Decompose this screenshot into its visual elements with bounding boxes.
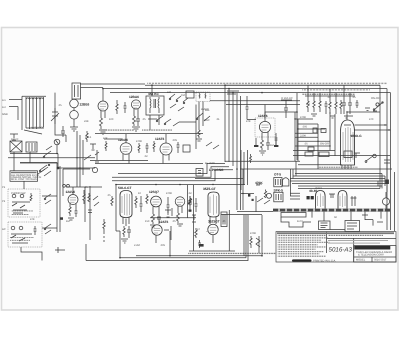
- VB interior: [163, 147, 170, 152]
- right column faint rows: [328, 240, 388, 244]
- dashed box 2: [8, 222, 42, 247]
- resistor R21 under V6: [123, 226, 125, 237]
- bottom note text row: [188, 253, 283, 254]
- right mesh verticals: [295, 112, 335, 169]
- box2 contacts: [11, 226, 32, 243]
- nested output wires: [290, 161, 388, 196]
- coil marks inside osc box: [75, 85, 79, 97]
- V4 internals: [262, 125, 269, 130]
- resistor R25 left: [105, 141, 107, 151]
- capacitor C2 area: [61, 126, 65, 137]
- svg-text:50B5: 50B5: [256, 183, 263, 186]
- label row under: [318, 167, 358, 168]
- resistor R11: [198, 130, 200, 138]
- resistor R24 col: [103, 219, 105, 242]
- VA interior: [123, 147, 130, 152]
- svg-text:22K: 22K: [84, 120, 89, 123]
- text row right: [302, 89, 370, 90]
- resistor R5 mid: [116, 100, 118, 114]
- wire x85 drop: [84, 187, 86, 222]
- caps right of V8: [188, 196, 198, 212]
- wire vertical x170: [169, 231, 171, 256]
- wire row top joins: [305, 95, 355, 97]
- jack marks: [198, 171, 201, 174]
- tube V7 circle: [151, 196, 162, 207]
- svg-text:12AV6: 12AV6: [258, 114, 268, 118]
- cord marks: [256, 236, 260, 253]
- phono switch dashed box 1: [8, 189, 40, 217]
- svg-text:12BE6: 12BE6: [80, 103, 90, 107]
- wires join left to center: [42, 169, 90, 228]
- svg-text:12AV6: 12AV6: [66, 190, 76, 194]
- wire bottom-long y255.7: [136, 255, 262, 257]
- vertical line right mid: [296, 93, 298, 160]
- long wire y184.5: [116, 184, 245, 186]
- svg-text:12SQ7: 12SQ7: [149, 190, 159, 194]
- svg-text:A 1: A 1: [2, 99, 6, 102]
- svg-text:150: 150: [145, 220, 150, 223]
- svg-text:9BtO-G: 9BtO-G: [351, 134, 363, 138]
- capacitor C10: [177, 142, 180, 153]
- long label row y130: [100, 129, 134, 130]
- capacitor C12: [246, 96, 257, 120]
- wire vertical x229.3: [189, 210, 235, 251]
- wire osc box lower: [81, 87, 104, 89]
- ground V3: [132, 127, 140, 131]
- capacitor C20 under V6: [127, 226, 131, 238]
- right outer margin vertical: [394, 172, 396, 231]
- volume control pot: [95, 150, 99, 162]
- speaker marks: [276, 194, 281, 200]
- svg-text:.05: .05: [107, 194, 111, 197]
- OT coils: [276, 179, 281, 185]
- svg-text:470K: 470K: [136, 140, 142, 143]
- dark junction blob: [189, 210, 192, 212]
- wire vertical x256: [255, 196, 257, 212]
- contacts under T2: [197, 113, 210, 121]
- svg-text:5016-A3: 5016-A3: [329, 247, 353, 254]
- VA leads: [123, 153, 129, 163]
- tube V8 circle: [175, 197, 185, 207]
- tube V11 circle: [208, 224, 218, 234]
- loop antenna L1: [22, 96, 46, 134]
- wire bundle top corners: [225, 84, 380, 86]
- small tube V15 right: [382, 198, 389, 205]
- parts between tubes: [329, 194, 335, 198]
- svg-text:& TELEVISION CORP.: & TELEVISION CORP.: [358, 254, 385, 257]
- capacitor C4: [266, 140, 270, 150]
- B+ bus vertical bundle: [225, 85, 241, 210]
- sub-box bottom row divider: [354, 257, 396, 262]
- svg-text:P2: P2: [2, 200, 6, 203]
- marks in box C: [347, 223, 357, 229]
- dark header bar: [354, 246, 390, 250]
- tube dome V12: [283, 178, 289, 186]
- V5 base pins: [342, 165, 351, 169]
- svg-text:.05: .05: [172, 220, 176, 223]
- terminal strip dark bar: [273, 209, 390, 212]
- V3 leads down: [134, 109, 138, 116]
- phono jack rect: [196, 169, 203, 177]
- trimmer circle: [54, 139, 60, 145]
- VA stub top: [104, 134, 126, 143]
- svg-text:220K: 220K: [300, 135, 306, 138]
- tube V10 elongated: [208, 192, 219, 217]
- right column verticals x77-83: [77, 131, 83, 187]
- wire left margin: [9, 100, 22, 121]
- parts mid cluster: [165, 208, 172, 217]
- V10 pins: [210, 217, 216, 224]
- vertical pair with jacks: [57, 163, 69, 233]
- wire row y168: [58, 167, 95, 169]
- wire y193.5 stub: [241, 193, 254, 195]
- tube V6 output elongated envelope: [120, 191, 132, 218]
- box under bar: [281, 213, 306, 218]
- capacitor C26 under VC: [75, 208, 78, 217]
- ballast inner: [223, 214, 225, 225]
- svg-text:AC: AC: [2, 228, 6, 231]
- switch contacts left band: [41, 146, 59, 172]
- tube V1 lower section circle: [70, 111, 79, 120]
- V6 pins: [123, 218, 129, 227]
- wires to boxes: [312, 212, 381, 221]
- table verticals: [327, 232, 354, 262]
- black blob logo: [292, 259, 312, 261]
- wire lower-left vertical x86: [85, 244, 87, 261]
- long wire y169: [240, 168, 392, 170]
- V7 internals: [153, 200, 160, 205]
- tube VA 2nd IF circle: [120, 143, 132, 155]
- left column text lines: [278, 237, 330, 257]
- svg-text:35Z5GT: 35Z5GT: [208, 220, 220, 224]
- output box B: [319, 221, 331, 230]
- svg-text:.02: .02: [327, 96, 331, 99]
- wire antenna to grid: [55, 93, 66, 142]
- wire nested corners bottom right: [193, 215, 248, 261]
- V7 leads: [153, 206, 159, 214]
- wire bottom-long y257.7: [120, 257, 246, 259]
- svg-text:OSC: OSC: [204, 119, 210, 122]
- ballast box R40: [221, 212, 227, 227]
- V4 dashed can: [255, 118, 275, 137]
- svg-text:.05: .05: [352, 96, 356, 99]
- svg-text:.005: .005: [160, 244, 166, 247]
- resistor R8: [153, 141, 155, 152]
- lower-left extra verticals: [24, 181, 92, 240]
- VC interior: [70, 198, 76, 202]
- pilot lamp blobs: [248, 194, 250, 197]
- rectifier tube V13: [316, 191, 326, 209]
- wire V2 top: [102, 89, 104, 101]
- nested corner wires to bundle: [112, 164, 233, 181]
- wires to output tube: [355, 125, 391, 130]
- svg-text:117V: 117V: [297, 220, 303, 223]
- VB leads: [163, 134, 169, 164]
- ground T2: [196, 139, 202, 141]
- svg-text:AM: AM: [167, 91, 171, 94]
- maker name sub-box: [354, 246, 396, 262]
- wire vertical x243: [242, 169, 244, 210]
- svg-text:MODEL: MODEL: [356, 258, 366, 261]
- resistor R30: [250, 236, 252, 248]
- IF transformer T1 dashed can: [146, 96, 164, 115]
- dark terminal blob: [60, 217, 63, 220]
- resistor R3: [261, 140, 264, 150]
- ground under V6: [121, 239, 128, 243]
- svg-text:47K: 47K: [246, 120, 251, 123]
- capacitor C9: [146, 143, 149, 153]
- IF transformer T3 box with X: [10, 141, 22, 152]
- wire y178.5 stub: [195, 178, 243, 180]
- V4 leads: [262, 132, 268, 140]
- svg-text:P1: P1: [2, 186, 6, 189]
- long wire y161: [225, 160, 300, 162]
- capacitor C41: [198, 240, 201, 248]
- svg-text:470K: 470K: [166, 192, 172, 195]
- note box: [10, 171, 38, 182]
- T2 coils: [199, 94, 206, 99]
- transformer T4 box: [26, 142, 37, 152]
- switch S5 diagonals: [206, 142, 219, 149]
- ground marks row: [150, 224, 183, 227]
- tube VC 1st audio circle: [68, 195, 78, 205]
- wire vertical x120: [119, 231, 121, 258]
- V2 lower leads: [101, 111, 105, 118]
- box2 capacitor: [34, 226, 37, 235]
- V3 internals: [133, 103, 139, 108]
- wire bottom-long y260.5: [86, 260, 193, 262]
- tube V9 circle lower: [152, 225, 162, 235]
- svg-text:1M: 1M: [306, 103, 310, 106]
- wire vertical x193.5: [193, 185, 195, 251]
- V9 leads resistors: [156, 226, 171, 243]
- wire top bus A: [145, 84, 380, 86]
- switch contacts under: [256, 185, 270, 204]
- small box comp: [183, 145, 190, 152]
- small parts near x55 y250: [55, 247, 65, 253]
- wire bank drops: [308, 85, 350, 100]
- VC leads: [70, 187, 76, 208]
- svg-text:.02: .02: [144, 155, 148, 158]
- wire y164.5: [298, 164, 342, 166]
- svg-text:100: 100: [109, 118, 114, 121]
- output tube V5 envelope: [341, 120, 355, 165]
- output transformer box: [274, 178, 282, 187]
- V6 internals: [122, 194, 130, 216]
- V13 internals: [318, 194, 324, 208]
- svg-text:SPK-5: SPK-5: [274, 189, 284, 193]
- wire drop x116: [116, 185, 120, 232]
- wire y160.5: [90, 160, 148, 162]
- T2 lower leads: [196, 102, 219, 150]
- box1 extra rows: [11, 211, 33, 212]
- wire y163.5: [95, 163, 203, 165]
- components between tubes: [140, 196, 170, 213]
- ground VC: [68, 218, 74, 220]
- wire plate right: [347, 112, 380, 120]
- svg-text:5OL6-GT: 5OL6-GT: [118, 186, 132, 190]
- grounds under resistor bank: [311, 114, 335, 118]
- svg-text:FM: FM: [181, 94, 185, 97]
- svg-text:35Z5-GT: 35Z5-GT: [203, 187, 216, 191]
- resistor R4 right: [275, 133, 278, 146]
- svg-text:.05: .05: [58, 104, 62, 107]
- resistor R29 left of V7: [146, 194, 148, 204]
- svg-text:.05: .05: [304, 143, 308, 146]
- svg-text:PM-5: PM-5: [85, 136, 92, 139]
- wire row y157.8 long AVC: [8, 157, 95, 159]
- wire y217.8: [150, 217, 196, 219]
- svg-text:12AT6: 12AT6: [155, 137, 165, 141]
- wire top bus B: [103, 88, 387, 90]
- svg-text:1M: 1M: [270, 144, 274, 147]
- svg-text:A 2: A 2: [2, 106, 6, 109]
- wire y214.5: [221, 214, 262, 216]
- wire y155.5 right: [293, 155, 390, 157]
- contacts right of VC: [93, 196, 99, 206]
- V11 lead: [212, 235, 214, 243]
- wire step y104.5: [226, 104, 300, 106]
- svg-text:ON-OFF: ON-OFF: [320, 143, 330, 146]
- trimmer stem: [56, 140, 59, 154]
- V9 internals: [154, 228, 160, 233]
- svg-text:5016 5017: 5016 5017: [374, 258, 387, 261]
- connecting verticals: [14, 152, 58, 171]
- dense first text row: [277, 232, 394, 234]
- svg-text:GND: GND: [2, 113, 8, 116]
- svg-text:.05: .05: [84, 186, 88, 189]
- parts small left: [192, 215, 196, 222]
- table outer border: [276, 232, 396, 262]
- wire vertical x187.5: [187, 185, 189, 218]
- svg-text:IF 455 KC: IF 455 KC: [281, 97, 293, 100]
- resistor R20: [83, 190, 85, 204]
- column parts: [84, 144, 96, 160]
- tube V14: [338, 191, 347, 209]
- wire y211.5: [237, 211, 273, 213]
- wire right drop: [261, 215, 263, 257]
- small parts right of boxes: [362, 215, 383, 226]
- svg-text:1ST IF: 1ST IF: [11, 138, 19, 141]
- V8 internals: [177, 200, 183, 205]
- V11 internals: [210, 228, 216, 233]
- table horizontal divider right: [327, 237, 397, 239]
- resistor R1 below V2: [100, 118, 103, 129]
- svg-text:47K: 47K: [30, 218, 35, 221]
- wire osc box to bus: [81, 83, 146, 85]
- ground stems with blobs: [255, 138, 257, 145]
- resistor R26 under VC: [69, 207, 71, 216]
- svg-text:OT-5: OT-5: [274, 172, 281, 176]
- svg-text:.02: .02: [188, 192, 192, 195]
- tube V1 oscillator section circle: [70, 99, 79, 108]
- right margin verticals: [380, 85, 391, 230]
- nested wires into boxes: [290, 193, 300, 199]
- V15 leads: [385, 192, 387, 210]
- filter cap dark blobs: [307, 196, 310, 199]
- svg-text:12BA6: 12BA6: [118, 138, 128, 142]
- svg-text:47K: 47K: [103, 137, 108, 140]
- resistor R31: [264, 190, 266, 198]
- IF transformer T2 dashed can: [196, 92, 210, 102]
- V5 internal elements: [343, 125, 353, 162]
- svg-text:12AT6: 12AT6: [159, 220, 169, 224]
- wire label text row above top bus: [147, 83, 387, 85]
- V10 internals: [210, 195, 217, 216]
- switch S3 right: [356, 100, 384, 111]
- resistor R27: [88, 193, 90, 201]
- svg-text:12BA6: 12BA6: [129, 95, 139, 99]
- svg-text:PRINTED IN U.S.A.: PRINTED IN U.S.A.: [313, 260, 336, 263]
- box2 text rows: [10, 237, 34, 238]
- resistor R21b right of V6: [135, 196, 137, 208]
- sub bundle verticals x241-250: [241, 150, 252, 190]
- ground V4: [259, 151, 266, 155]
- wire box2 to down: [21, 247, 42, 261]
- ground below V2: [99, 130, 107, 134]
- oscillator coil T-osc box: [72, 83, 81, 99]
- box1 resistor: [30, 193, 32, 201]
- svg-text:.005: .005: [172, 139, 178, 142]
- resistor R21c left of V6: [111, 196, 113, 206]
- tube V4 audio circle: [259, 121, 270, 132]
- small rect components row y92: [186, 91, 194, 98]
- svg-text:.05: .05: [142, 118, 146, 121]
- resistor bank row R10-R14: [307, 99, 352, 114]
- tube VB det circle: [160, 143, 172, 155]
- box1 contacts: [12, 194, 30, 213]
- wire y133.6: [95, 133, 203, 135]
- ground below V1: [70, 127, 78, 131]
- wire drop to can: [264, 105, 266, 119]
- svg-text:2.2M: 2.2M: [134, 244, 140, 247]
- wire y187: [66, 186, 102, 188]
- tuning capacitor C1: [51, 108, 59, 124]
- component small circle: [92, 167, 97, 172]
- tube V3 IF amp circle: [131, 100, 140, 109]
- dark blob terminal: [199, 244, 204, 247]
- loop lower marks: [10, 134, 18, 140]
- wire V1 internal: [73, 99, 75, 127]
- svg-text:470K: 470K: [250, 232, 256, 235]
- T1 coils: [150, 97, 159, 130]
- wire row y153.5: [10, 153, 58, 155]
- avc components small: [281, 100, 292, 118]
- long wire y162: [20, 162, 57, 164]
- svg-text:1M: 1M: [66, 220, 70, 223]
- capacitor C3: [136, 116, 140, 126]
- marks in box B: [321, 223, 328, 228]
- wire between boxes: [330, 229, 345, 231]
- svg-text:.005: .005: [302, 126, 308, 129]
- extra bank parts: [325, 101, 328, 114]
- wire T1 drop: [151, 85, 153, 96]
- wire row y163: [20, 162, 58, 164]
- switch S2 contacts mid: [156, 116, 179, 126]
- component row right y152: [305, 151, 376, 162]
- svg-text:PHONO SW: PHONO SW: [11, 192, 26, 195]
- speaker box: [274, 192, 283, 202]
- capacitor C6 mid: [124, 102, 127, 113]
- wire mid links: [148, 105, 196, 123]
- svg-text:.05: .05: [222, 220, 226, 223]
- switch contacts mid-left: [44, 194, 51, 234]
- wire V4 plate: [265, 112, 297, 121]
- wire x196 drop: [195, 122, 197, 149]
- svg-text:35W4: 35W4: [315, 187, 322, 190]
- band switch S1 contacts top: [169, 94, 188, 111]
- output box C: [345, 221, 360, 232]
